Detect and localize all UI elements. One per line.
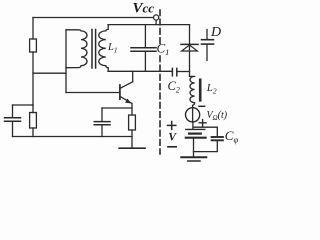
- capacitor emitter bypass: [94, 108, 110, 137]
- wire lower-left node: [13, 104, 34, 106]
- svg-text:D: D: [210, 25, 221, 40]
- capacitor C1: [131, 25, 156, 72]
- ground right: [181, 157, 206, 161]
- resistor R2: [30, 105, 37, 137]
- capacitor C-base (lower left): [5, 105, 21, 137]
- svg-text:C2: C2: [168, 79, 180, 95]
- wire through source circle: [192, 108, 194, 122]
- transformer winding L1 left: [66, 30, 87, 68]
- wire C-phi branch: [194, 127, 218, 151]
- wire Vcc stub: [155, 20, 157, 24]
- transformer winding L1 right: [99, 25, 108, 72]
- wire emitter resistor to ground: [131, 130, 133, 148]
- plus sign battery left: [168, 122, 176, 130]
- wire base line: [66, 92, 120, 94]
- wire collector node line: [108, 70, 172, 72]
- diode D: [181, 44, 198, 51]
- svg-text:C1: C1: [157, 41, 170, 58]
- wire feedback vertical: [65, 30, 67, 93]
- wire battery to ground: [193, 138, 195, 157]
- wire diode branch vertical: [189, 25, 191, 77]
- capacitor C-phi: [212, 137, 223, 140]
- inductor L2: [190, 76, 201, 107]
- svg-text:VΩ(t): VΩ(t): [207, 110, 228, 122]
- terminal Vcc circle: [154, 15, 159, 20]
- wire left vertical upper: [32, 18, 34, 40]
- svg-text:Cφ: Cφ: [225, 128, 239, 145]
- wire base-bias tee: [33, 72, 66, 74]
- wire bottom rail: [13, 136, 133, 138]
- minus sign battery left: [168, 146, 176, 148]
- svg-text:L1: L1: [107, 42, 118, 55]
- dashed separator: [159, 10, 161, 44]
- ground left: [119, 147, 145, 149]
- resistor R1: [30, 39, 37, 52]
- transistor Q1: [120, 71, 133, 115]
- wire emitter node line: [102, 107, 132, 109]
- capacitor C2: [172, 68, 189, 75]
- minus sign source: [199, 105, 205, 107]
- transformer core: [91, 30, 93, 69]
- plus sign battery top: [199, 120, 206, 126]
- svg-text:V: V: [168, 131, 177, 143]
- wire left vertical mid: [32, 52, 34, 105]
- source circle v-omega: [186, 108, 200, 122]
- varactor capacitor beside D: [202, 30, 214, 61]
- battery V: [186, 129, 206, 137]
- svg-text:Vcc: Vcc: [133, 0, 155, 16]
- resistor emitter: [129, 115, 136, 130]
- wire second rail: [108, 24, 190, 26]
- wire circle to battery: [192, 122, 194, 129]
- wire top rail Vcc: [33, 17, 153, 19]
- svg-text:L2: L2: [206, 82, 217, 96]
